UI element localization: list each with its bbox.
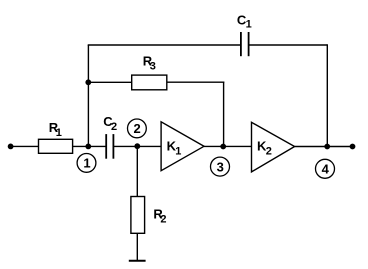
- svg-text:2: 2: [160, 214, 166, 226]
- svg-text:3: 3: [217, 159, 224, 174]
- node 3 circle: [211, 157, 230, 176]
- svg-text:4: 4: [322, 162, 330, 177]
- wire to R3: [88, 81, 131, 83]
- svg-text:1: 1: [175, 146, 181, 158]
- capacitor C1: [240, 32, 242, 56]
- node 4 junction dot: [324, 144, 330, 150]
- wire K2 to output: [295, 146, 353, 148]
- top wire C1 to right: [249, 44, 328, 46]
- wire node2 down to R2: [136, 146, 138, 196]
- node 1 circle: [77, 154, 96, 173]
- resistor R3: [132, 75, 167, 90]
- output terminal dot: [350, 144, 356, 150]
- svg-text:1: 1: [246, 18, 252, 30]
- op-amp K2: [252, 122, 295, 172]
- wire input to R1: [11, 145, 39, 147]
- top wire to C1: [88, 44, 241, 46]
- node 4 circle: [316, 159, 335, 178]
- wire K1 to K2: [204, 145, 252, 147]
- capacitor C2: [105, 134, 107, 159]
- node 2 circle: [127, 119, 146, 138]
- wire R2 to ground: [136, 233, 138, 260]
- junction dot at R3 branch: [85, 79, 91, 85]
- node 2 junction dot: [134, 143, 140, 149]
- svg-text:2: 2: [111, 121, 117, 133]
- wire R1 to C2: [73, 145, 107, 147]
- op-amp K1: [161, 122, 204, 171]
- wire node1 up to top: [87, 45, 89, 146]
- svg-text:1: 1: [56, 127, 62, 139]
- resistor R2: [131, 197, 145, 234]
- wire down to node 4: [326, 44, 328, 146]
- svg-text:2: 2: [266, 146, 272, 158]
- input terminal dot: [8, 144, 14, 150]
- wire R3 to node3 branch: [167, 81, 225, 83]
- resistor R1: [39, 139, 73, 153]
- wire C2 to K1: [113, 145, 161, 147]
- node 1 junction dot: [85, 144, 91, 150]
- wire down to node 3: [223, 82, 225, 147]
- node 3 junction dot: [220, 144, 226, 150]
- ground: [129, 260, 146, 262]
- svg-text:2: 2: [134, 121, 141, 136]
- svg-text:3: 3: [150, 61, 156, 73]
- svg-text:1: 1: [83, 156, 90, 171]
